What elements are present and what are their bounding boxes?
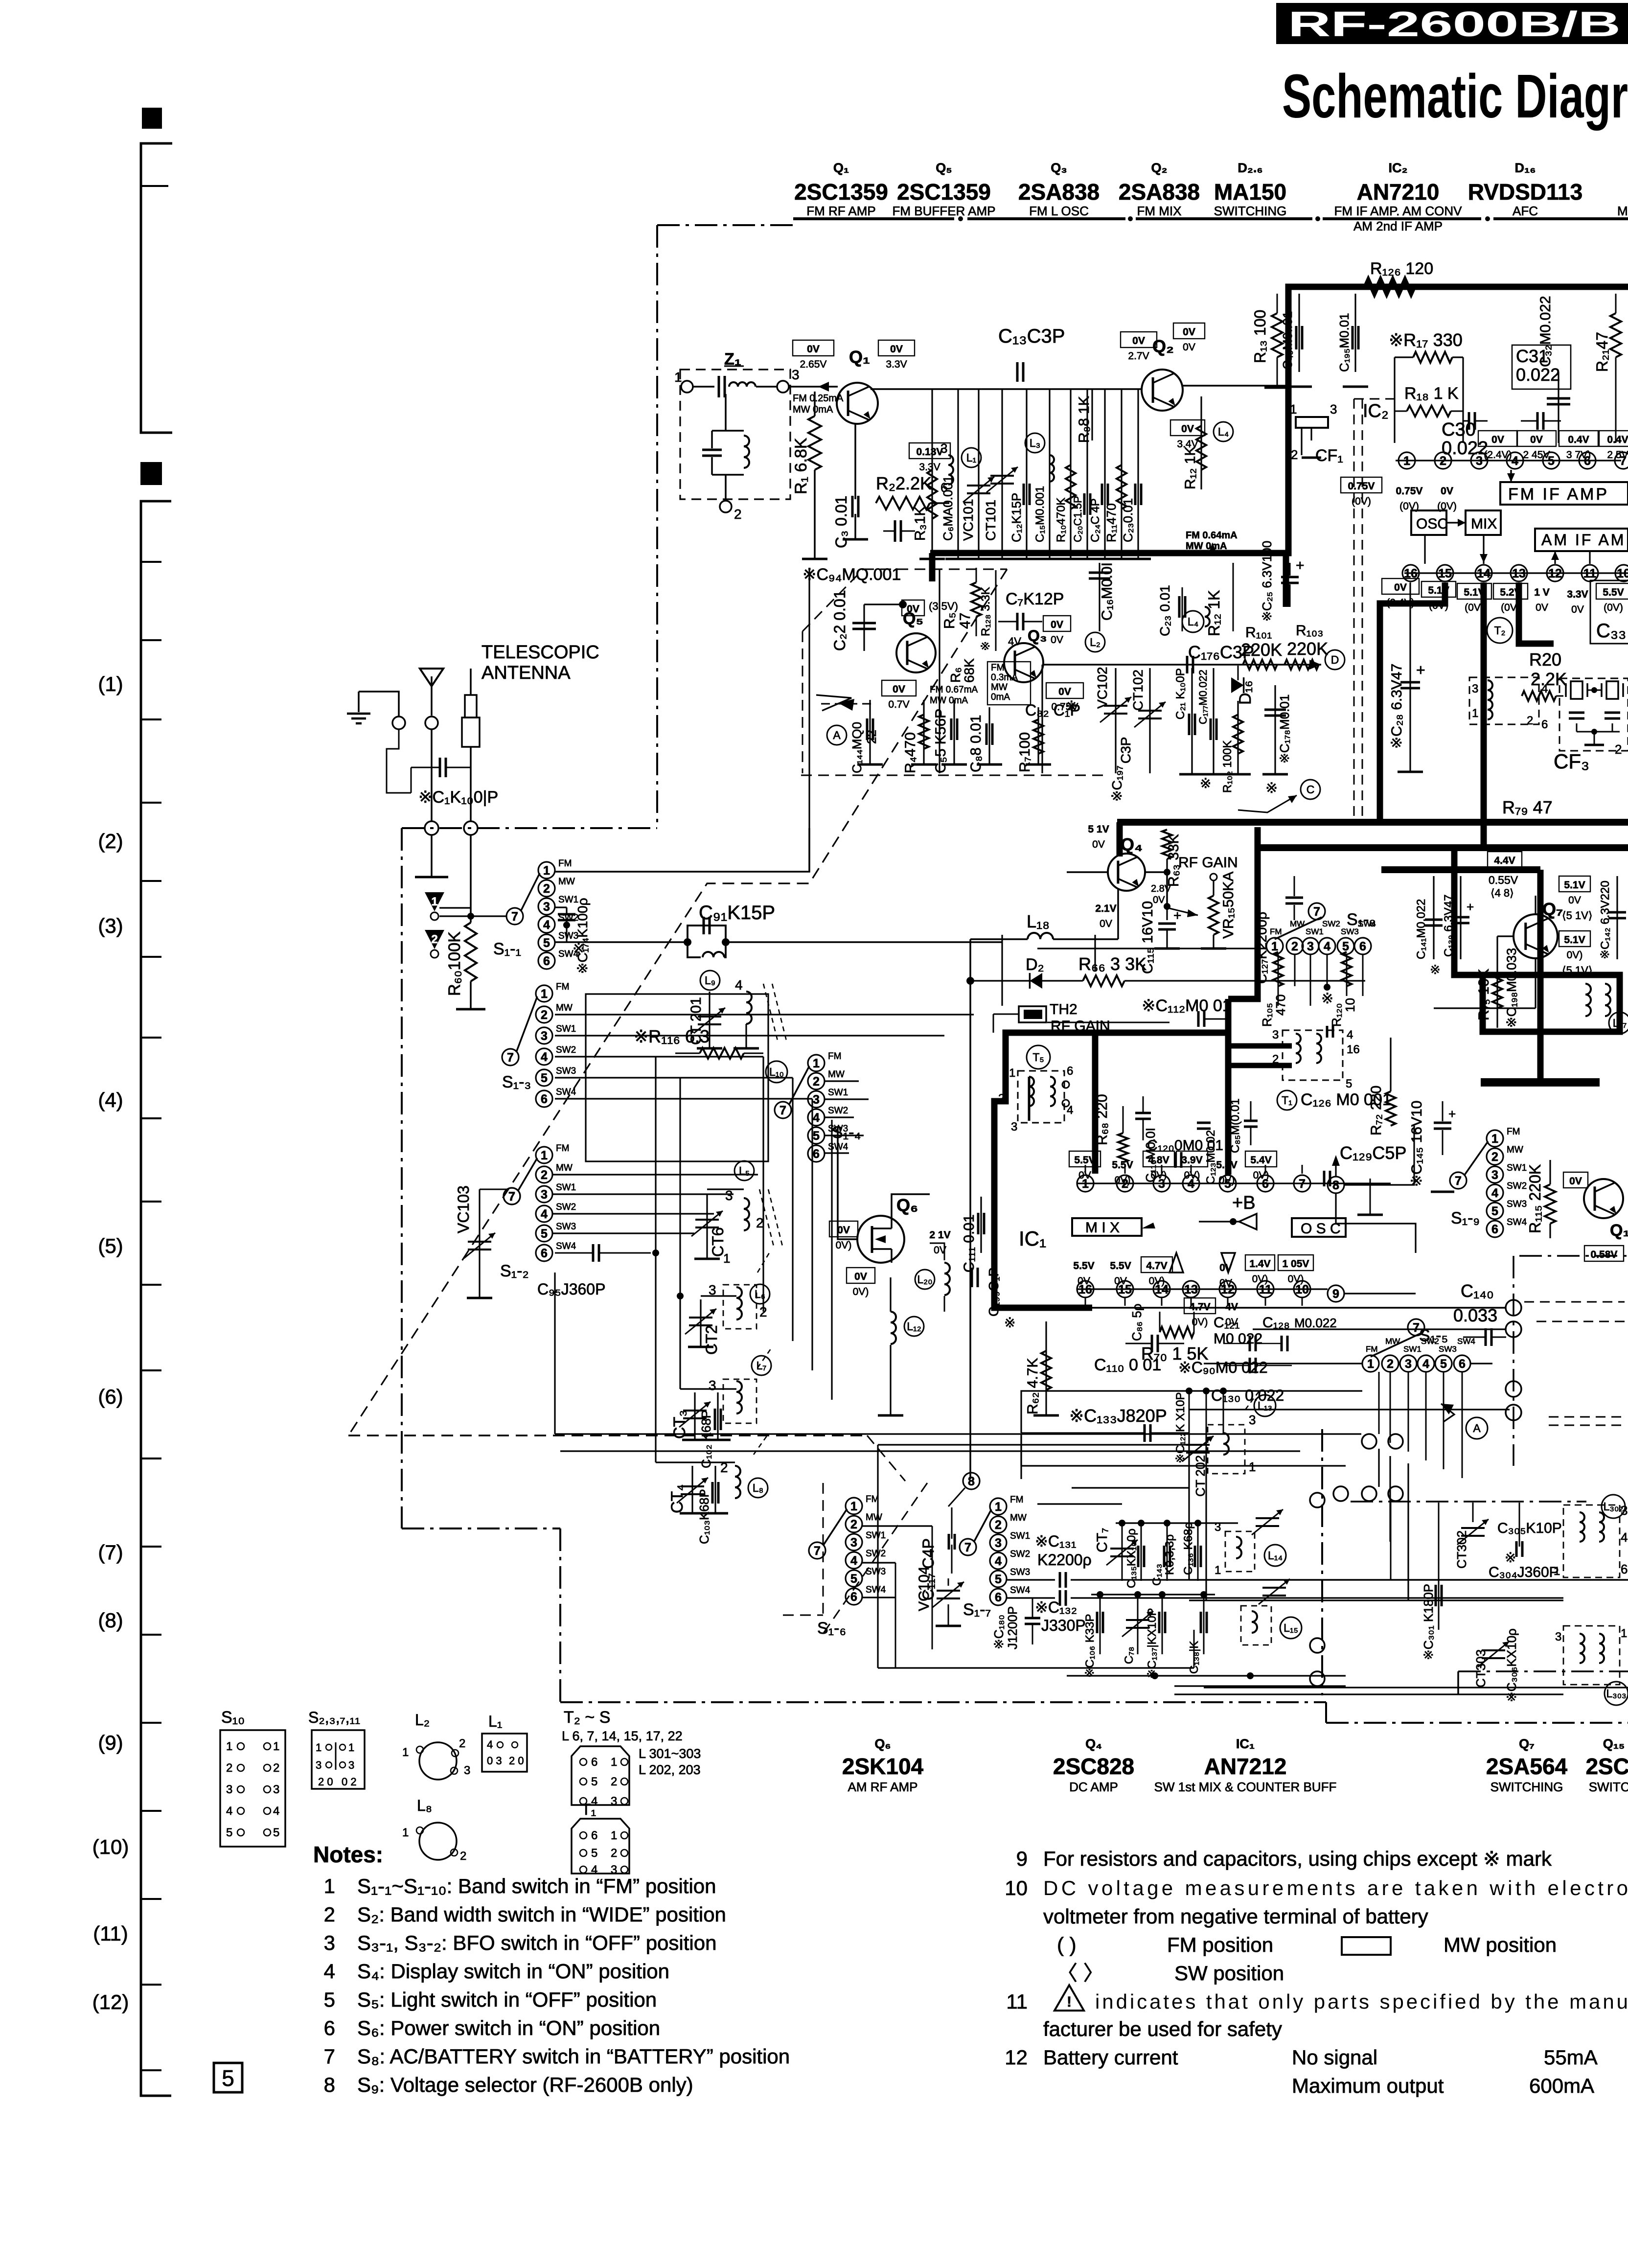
svg-text:※C₁₄₂ 6.3V220: ※C₁₄₂ 6.3V220 [1599, 880, 1612, 959]
svg-text:MIX: MIX [1471, 516, 1497, 532]
svg-text:0V: 0V [1092, 839, 1105, 850]
svg-text:2: 2 [1615, 742, 1622, 757]
svg-text:(5): (5) [98, 1234, 123, 1257]
resistor R11 470 [1121, 389, 1122, 558]
arrow up into AM IF AMP [1554, 551, 1556, 564]
svg-text:※C₃₀₁ K180P: ※C₃₀₁ K180P [1421, 1584, 1436, 1660]
svg-text:5: 5 [273, 1826, 279, 1839]
svg-text:0V: 0V [1571, 604, 1584, 615]
svg-text:0V: 0V [1219, 1277, 1232, 1289]
svg-text:T₂: T₂ [1494, 624, 1506, 637]
svg-text:1: 1 [402, 1746, 409, 1759]
chain bottom border right upper [1458, 1670, 1628, 1672]
svg-text:2: 2 [611, 1847, 617, 1860]
node 8 circle [963, 1473, 980, 1489]
svg-text:4: 4 [1324, 940, 1330, 953]
svg-text:C₃₃: C₃₃ [1596, 620, 1626, 642]
wire FM row vertical x1654 [808, 568, 810, 872]
band switch S1-6 [846, 1498, 862, 1514]
electrolytic C28 6.3V47 [1409, 582, 1411, 771]
connector circles column [1506, 1300, 1521, 1316]
inductor L12 [904, 1317, 924, 1336]
capacitor C177 M0.022 [1213, 668, 1214, 773]
svg-text:D₂: D₂ [1026, 955, 1044, 974]
svg-text:0V: 0V [1181, 423, 1194, 435]
inductor L2 circle [1085, 632, 1105, 652]
svg-text:S₄: Display switch in “ON” pos: S₄: Display switch in “ON” position [357, 1960, 669, 1983]
svg-text:R₁₀₁: R₁₀₁ [1245, 625, 1272, 641]
wire Q2 right [1182, 385, 1287, 387]
bus thick FM IF row [930, 287, 1628, 553]
wire coil rows [555, 1014, 710, 1015]
node A2 circle [1466, 1417, 1488, 1439]
resistor R8 1K [1091, 389, 1093, 440]
resistor R120 10 [1342, 952, 1352, 986]
wire bottom verticals C133 area [1188, 1433, 1190, 1580]
warning arrow [816, 695, 851, 711]
svg-text:SW2: SW2 [556, 1202, 576, 1212]
svg-text:7: 7 [508, 1190, 515, 1203]
left crop mark square 2 [140, 462, 162, 485]
svg-text:(3): (3) [98, 914, 123, 937]
wire IC1 pin10 row right [1310, 1288, 1328, 1290]
chain bottom middle [1351, 1501, 1586, 1503]
svg-text:6: 6 [541, 1247, 548, 1260]
svg-text:C₂₃ 0.01: C₂₃ 0.01 [1157, 585, 1172, 636]
transistor Q1 [837, 383, 878, 424]
amplifier triangle B [1239, 1214, 1257, 1229]
svg-text:4: 4 [813, 1111, 820, 1125]
wire Z1 to Q1 [789, 386, 838, 388]
svg-text:4: 4 [591, 1863, 597, 1876]
inductor L8 coil [735, 1466, 740, 1498]
svg-text:S₆: Power switch in “ON” posit: S₆: Power switch in “ON” position [357, 2016, 660, 2039]
svg-text:C₂₁ K₁₀0P: C₂₁ K₁₀0P [1174, 668, 1187, 719]
svg-text:C₄₉M0..01: C₄₉M0..01 [1280, 311, 1295, 370]
svg-text:C₁₂K15P: C₁₂K15P [1009, 493, 1024, 542]
chain bottom border [560, 1701, 1326, 1703]
svg-text:C₆MA0.001: C₆MA0.001 [940, 476, 955, 541]
svg-text:S₁-₈: S₁-₈ [1347, 910, 1376, 929]
svg-text:2: 2 [756, 1215, 764, 1230]
svg-text:2.1V: 2.1V [1095, 903, 1116, 914]
svg-text:SW1: SW1 [1403, 1344, 1422, 1354]
svg-text:470: 470 [1273, 995, 1288, 1016]
trimmer CT7 [1122, 1523, 1123, 1581]
resistor R10 470K [1070, 389, 1071, 558]
svg-text:0 3: 0 3 [487, 1755, 502, 1767]
inductor L9 [700, 971, 720, 990]
bus down to IC1 pin1 [1092, 1033, 1099, 1174]
svg-text:MW: MW [866, 1512, 882, 1523]
svg-text:AN7210: AN7210 [1357, 179, 1440, 205]
svg-text:T₂ ~ S: T₂ ~ S [564, 1708, 610, 1727]
wire Q7 emitter down [1535, 958, 1536, 1008]
resistor R83 33K [1162, 830, 1172, 859]
bus stub below corner [1283, 553, 1289, 607]
svg-text:47: 47 [957, 613, 973, 629]
svg-text:SW1: SW1 [866, 1530, 886, 1541]
svg-text:0V: 0V [1394, 582, 1407, 593]
svg-text:R₁₂ 1K: R₁₂ 1K [1182, 446, 1198, 489]
svg-text:5: 5 [1346, 1077, 1352, 1090]
svg-text:C₁₄₁M0.022: C₁₄₁M0.022 [1415, 899, 1428, 959]
svg-text:2SA838: 2SA838 [1119, 179, 1200, 205]
svg-text:※C₁₃₃J820P: ※C₁₃₃J820P [1069, 1406, 1167, 1426]
svg-text:8: 8 [324, 2073, 335, 2096]
IC1 pin stub wires [1085, 1165, 1086, 1174]
svg-text:C₈₆ 5ρ: C₈₆ 5ρ [1129, 1303, 1144, 1341]
svg-text:3: 3 [1555, 1630, 1561, 1643]
resistor R62 4.7K [1045, 1321, 1047, 1414]
svg-text:J1200P: J1200P [1005, 1606, 1020, 1649]
svg-text:R₁₁470: R₁₁470 [1104, 503, 1119, 542]
trimmer CT3 [694, 1392, 695, 1439]
svg-text:AM RF AMP: AM RF AMP [848, 1780, 917, 1794]
svg-text:2SA564: 2SA564 [1486, 1754, 1568, 1779]
svg-text:1: 1 [1009, 1066, 1015, 1080]
capacitor C3 0.01 [854, 424, 856, 499]
svg-text:A: A [1473, 1422, 1481, 1435]
svg-text:indicates that only parts spec: indicates that only parts specified by t… [1095, 1990, 1628, 2013]
svg-text:5.5V: 5.5V [1603, 587, 1624, 598]
svg-text:(12): (12) [92, 1990, 129, 2013]
svg-text:0V: 0V [1114, 1275, 1127, 1287]
svg-text:K2200ρ: K2200ρ [1037, 1551, 1092, 1569]
resistor R105 470 [1273, 952, 1283, 986]
svg-text:4: 4 [541, 1050, 548, 1064]
svg-text:11: 11 [1006, 1990, 1028, 2013]
svg-text:SW2: SW2 [1010, 1549, 1030, 1559]
svg-text:S₁-₃: S₁-₃ [502, 1073, 531, 1091]
svg-text:SW1: SW1 [1507, 1163, 1527, 1173]
svg-text:C₁₂₁: C₁₂₁ [1214, 1315, 1240, 1331]
svg-text:3: 3 [324, 1931, 335, 1954]
svg-text:R20: R20 [1529, 649, 1561, 670]
svg-text:C₁₆M0.0I: C₁₆M0.0I [1099, 562, 1115, 621]
svg-text:0V: 0V [1058, 686, 1071, 697]
dashed diagonal to band switches [348, 569, 1007, 1435]
capacitor C199 C1P [971, 1268, 973, 1287]
wire vertical x1920 FM section [939, 569, 940, 773]
svg-text:SW3: SW3 [556, 1066, 576, 1076]
inductor L14 dashed box [1225, 1531, 1255, 1572]
svg-text:TELESCOPIC: TELESCOPIC [482, 642, 599, 663]
svg-text:MW: MW [1010, 1513, 1027, 1523]
svg-text:C₁₄₀: C₁₄₀ [1461, 1281, 1494, 1301]
svg-text:1: 1 [1367, 1357, 1374, 1371]
svg-text:C₁₁₁ 0.01: C₁₁₁ 0.01 [961, 1214, 977, 1273]
svg-text:L₁₂: L₁₂ [907, 1320, 921, 1333]
inductor L20 [915, 1270, 935, 1289]
svg-text:C₁₂₈: C₁₂₈ [1262, 1315, 1290, 1331]
svg-text:DC AMP: DC AMP [1069, 1780, 1118, 1794]
svg-text:2.7V: 2.7V [1128, 350, 1149, 362]
svg-text:VC103: VC103 [455, 1185, 472, 1233]
capacitor C195 M0.01 [1354, 294, 1356, 372]
svg-text:MW position: MW position [1444, 1933, 1557, 1956]
svg-text:Q₆: Q₆ [896, 1195, 918, 1215]
svg-text:3: 3 [725, 1188, 733, 1203]
svg-text:0V): 0V) [1252, 1273, 1268, 1285]
svg-text:FM IF AMP. AM CONV: FM IF AMP. AM CONV [1334, 204, 1462, 218]
svg-text:6: 6 [1621, 1562, 1628, 1576]
svg-text:4.8V: 4.8V [1148, 1155, 1169, 1166]
svg-text:※C₃₀₆KX10ρ: ※C₃₀₆KX10ρ [1504, 1628, 1519, 1702]
svg-text:MW 0mA: MW 0mA [930, 695, 968, 706]
svg-text:S₁-₁~S₁-₁₀: Band switch in “FM: S₁-₁~S₁-₁₀: Band switch in “FM” position [357, 1875, 716, 1898]
resistor R102 100K [1237, 701, 1238, 773]
svg-text:2: 2 [460, 1850, 466, 1863]
svg-text:0V: 0V [1183, 326, 1195, 338]
svg-text:0V): 0V) [836, 1240, 852, 1251]
varicap VC102 [1115, 668, 1116, 773]
wire bottom right verticals [1438, 1503, 1440, 1556]
svg-text:M: M [1617, 204, 1628, 218]
svg-text:S₁-₆: S₁-₆ [817, 1619, 846, 1638]
svg-text:4: 4 [1621, 1530, 1628, 1545]
svg-text:SW4: SW4 [866, 1585, 886, 1595]
svg-text:FM RF AMP: FM RF AMP [806, 204, 876, 218]
wire Q4 emitter down [1117, 889, 1119, 939]
capacitor C6 MA0.001 [957, 389, 959, 558]
svg-text:SW3: SW3 [1010, 1567, 1030, 1577]
svg-text:R₅: R₅ [941, 612, 958, 629]
resistor R60 100K [465, 923, 477, 981]
transformer dashed box AM [1469, 677, 1539, 724]
svg-text:C₁₉₉C₁P: C₁₉₉C₁P [986, 1268, 1001, 1317]
svg-text:0V: 0V [890, 344, 903, 355]
svg-text:※: ※ [1265, 780, 1278, 796]
svg-text:L₁₈: L₁₈ [1027, 911, 1050, 931]
svg-text:C₁₇₇M0.022: C₁₇₇M0.022 [1197, 670, 1209, 724]
wire pin8 loop [1344, 1126, 1414, 1185]
svg-text:CF₃: CF₃ [1554, 750, 1589, 773]
svg-text:J330P: J330P [1041, 1617, 1086, 1634]
svg-text:RVDSD113: RVDSD113 [1468, 179, 1582, 205]
svg-text:R₈8 1K: R₈8 1K [1076, 396, 1092, 443]
svg-text:4: 4 [1422, 1357, 1429, 1371]
svg-text:(0V): (0V) [1604, 602, 1623, 613]
svg-text:FM: FM [1010, 1495, 1023, 1505]
svg-text:CT303: CT303 [1473, 1649, 1488, 1688]
svg-text:M0.022: M0.022 [1294, 1316, 1337, 1330]
svg-text:2: 2 [1527, 714, 1533, 727]
section border chain antenna horizontal [402, 827, 657, 829]
inductor T16 dashed box [1283, 1030, 1343, 1080]
wire verticals bottom cluster [895, 1563, 896, 1668]
Z1 terminal 3 [777, 381, 789, 393]
svg-text:L₂₀: L₂₀ [917, 1273, 932, 1286]
svg-text:※: ※ [573, 941, 585, 957]
resistor R115 220K [1545, 1184, 1556, 1224]
capacitor C21 K10P [1191, 668, 1192, 773]
capacitor C78 [1137, 1595, 1139, 1654]
band switch S1-4 [808, 1055, 825, 1071]
svg-text:R₁₂₈ 3.3K: R₁₂₈ 3.3K [979, 587, 992, 636]
svg-text:AM IF AM: AM IF AM [1541, 531, 1626, 549]
capacitor C103 K68P [714, 1466, 716, 1512]
svg-text:3.3V: 3.3V [1567, 589, 1588, 600]
svg-text:CT101: CT101 [983, 500, 998, 541]
svg-text:0V): 0V) [1219, 1175, 1235, 1186]
svg-text:0mA: 0mA [991, 692, 1010, 702]
svg-text:6: 6 [591, 1756, 597, 1769]
svg-text:※: ※ [979, 641, 992, 651]
svg-text:FM: FM [1507, 1127, 1520, 1137]
svg-text:R₆₈ 220: R₆₈ 220 [1094, 1094, 1110, 1145]
svg-text:2: 2 [995, 1518, 1002, 1532]
svg-text:5.1V: 5.1V [1564, 934, 1585, 946]
svg-text:+: + [1296, 557, 1305, 574]
svg-text:※C₁₂₂K X10P: ※C₁₂₂K X10P [1174, 1392, 1187, 1463]
svg-text:0.4V: 0.4V [1568, 434, 1589, 445]
svg-text:Q₃: Q₃ [1051, 161, 1067, 175]
electrolytic C115 16V10 [1166, 909, 1168, 920]
svg-text:C₁₁₀ 0 01: C₁₁₀ 0 01 [1094, 1356, 1161, 1374]
wire left of S1-8 [1037, 948, 1189, 949]
svg-text:Q₁: Q₁ [833, 161, 849, 175]
svg-text:10: 10 [1617, 567, 1628, 580]
wire bottom rail [1067, 1675, 1346, 1676]
svg-text:2SC8: 2SC8 [1585, 1754, 1628, 1779]
svg-text:2 0: 2 0 [509, 1755, 524, 1767]
svg-text:⟨4 8⟩: ⟨4 8⟩ [1490, 887, 1514, 899]
svg-text:S₁-₉: S₁-₉ [1451, 1209, 1480, 1227]
svg-text:2SC1359: 2SC1359 [794, 179, 888, 205]
svg-text:Q₂: Q₂ [1151, 161, 1168, 175]
svg-text:SW2: SW2 [556, 1045, 576, 1055]
transistor Q6 FET [857, 1216, 904, 1263]
svg-text:2: 2 [611, 1775, 617, 1788]
trimmer CT6 [706, 1194, 708, 1258]
svg-text:2: 2 [273, 1761, 279, 1775]
svg-text:C₂₀C1.5P: C₂₀C1.5P [1072, 496, 1084, 542]
ground bar R13 [1264, 387, 1290, 389]
svg-text:3: 3 [1330, 402, 1337, 417]
capacitor C12 K15P [1026, 389, 1027, 558]
wire S1-5 connect [1204, 1363, 1362, 1364]
svg-text:2: 2 [734, 507, 742, 522]
node C circle [1301, 780, 1320, 799]
svg-text:SW1: SW1 [556, 1182, 576, 1193]
svg-text:2SK104: 2SK104 [842, 1754, 924, 1779]
svg-text:0V): 0V) [1115, 1175, 1131, 1186]
transformer T2 circle [1487, 618, 1513, 643]
svg-text:4: 4 [487, 1738, 493, 1751]
FM IF AMP box [1500, 482, 1628, 505]
ground symbol [358, 692, 360, 712]
svg-text:L₆: L₆ [755, 1288, 765, 1300]
svg-text:0V): 0V) [1149, 1275, 1165, 1287]
svg-text:Q₁: Q₁ [849, 347, 870, 367]
svg-text:SW3: SW3 [556, 1222, 576, 1232]
wire row 2716 [1253, 1328, 1506, 1330]
svg-text:T₁: T₁ [581, 1801, 596, 1818]
svg-text:6: 6 [543, 954, 550, 968]
svg-text:R₇₅ 10K: R₇₅ 10K [1476, 969, 1492, 1020]
capacitor C143 K033p [1167, 1523, 1168, 1581]
svg-text:Q₁₅: Q₁₅ [1610, 1221, 1628, 1240]
svg-text:6: 6 [1067, 1065, 1073, 1078]
svg-text:5: 5 [543, 936, 550, 950]
svg-text:5: 5 [541, 1071, 548, 1085]
IC1 top pins [1077, 1182, 1311, 1184]
varicap VC101 [978, 389, 979, 558]
wire Q7 collector [1535, 896, 1536, 914]
svg-text:1: 1 [611, 1829, 617, 1842]
svg-text:Notes:: Notes: [313, 1842, 383, 1867]
wire Q3 row to D arrow [1140, 664, 1321, 666]
svg-text:FM position: FM position [1167, 1933, 1273, 1956]
svg-text:L₈: L₈ [753, 1481, 763, 1494]
capacitor C106 K33P [1100, 1595, 1101, 1654]
transformer T1 circle [1277, 1090, 1297, 1110]
IC2 pin voltage labels [1341, 477, 1382, 493]
wire ground to jack [359, 692, 399, 717]
svg-text:9: 9 [1332, 1287, 1339, 1301]
svg-text:AM 2nd IF AMP: AM 2nd IF AMP [1353, 219, 1443, 233]
IC1 bottom pins [1077, 1288, 1311, 1290]
svg-text:R₆₆ 3 3K: R₆₆ 3 3K [1078, 954, 1146, 974]
svg-text:3: 3 [1491, 1168, 1498, 1182]
svg-text:1: 1 [1403, 454, 1410, 468]
inductor L302 circle [1602, 1495, 1625, 1518]
svg-text:5.5V: 5.5V [1074, 1155, 1095, 1166]
transistor Q5 [896, 633, 936, 672]
thick box right [1483, 975, 1620, 1032]
inductor L7 dashed box [723, 1379, 757, 1423]
svg-text:3: 3 [709, 1282, 716, 1297]
svg-text:+: + [1467, 900, 1474, 914]
wire bottom right rows [1189, 1579, 1628, 1580]
capacitor C178 M0.01 [1274, 685, 1276, 773]
svg-text:1: 1 [541, 987, 548, 1001]
svg-text:7: 7 [324, 2045, 335, 2068]
svg-text:SW4: SW4 [556, 1241, 576, 1251]
svg-text:0V: 0V [1491, 434, 1504, 445]
svg-text:SW1: SW1 [556, 1024, 576, 1034]
svg-text:7: 7 [964, 1541, 971, 1554]
svg-text:1: 1 [226, 1740, 232, 1753]
svg-text:2: 2 [1491, 1150, 1498, 1164]
svg-text:L 301~303: L 301~303 [639, 1746, 701, 1761]
svg-text:6: 6 [1359, 940, 1366, 953]
svg-text:2 0: 2 0 [318, 1776, 333, 1788]
svg-text:2 45V: 2 45V [1523, 449, 1550, 461]
capacitor C116 M0.01 [1135, 1112, 1151, 1114]
svg-text:SW position: SW position [1174, 1962, 1284, 1985]
transistor Q2 [1142, 370, 1183, 411]
svg-text:1: 1 [316, 1741, 321, 1754]
svg-text:5.4V: 5.4V [1250, 1155, 1271, 1166]
wire Q4 collector right [1145, 871, 1167, 873]
transistor Q4 [1108, 854, 1145, 891]
wire long vertical x1340 [655, 1057, 656, 1462]
svg-text:MW: MW [558, 877, 575, 887]
svg-text:FM 0.67mA: FM 0.67mA [930, 685, 978, 695]
svg-text:⟨5 1V⟩: ⟨5 1V⟩ [1562, 909, 1592, 922]
svg-text:16: 16 [1347, 1043, 1360, 1056]
capacitor C135KX10P [1141, 1523, 1142, 1581]
resistor R3 1K [931, 389, 933, 558]
svg-text:0V: 0V [854, 1271, 867, 1282]
svg-text:2SC828: 2SC828 [1053, 1754, 1134, 1779]
FM coil box [586, 994, 768, 1161]
svg-text:C₁₂₉C5P: C₁₂₉C5P [1340, 1143, 1406, 1163]
wire Q4 region verticals [1001, 935, 1003, 1006]
antenna chain nodes [425, 821, 438, 835]
